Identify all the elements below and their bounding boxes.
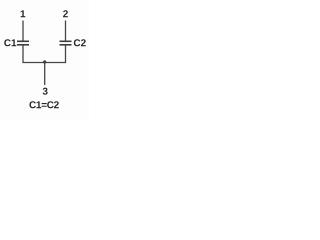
- terminal label 3: [43, 88, 48, 95]
- junction node dot: [43, 60, 46, 63]
- wire terminal 1 to C1 top plate: [22, 21, 24, 42]
- wire C2 bottom plate down: [65, 46, 67, 63]
- equation C1=C2: [29, 101, 58, 108]
- label C2: [74, 39, 86, 46]
- wire terminal 2 to C2 top plate: [65, 21, 67, 42]
- terminal label 2: [63, 10, 68, 17]
- background: [0, 0, 89, 120]
- capacitor C1: [17, 41, 29, 45]
- label C1: [4, 39, 16, 46]
- wire C1 bottom plate down: [22, 46, 24, 63]
- capacitor C2: [60, 41, 72, 45]
- wire bottom bus: [22, 62, 66, 64]
- terminal label 1: [21, 10, 26, 17]
- wire bus to terminal 3: [44, 63, 46, 86]
